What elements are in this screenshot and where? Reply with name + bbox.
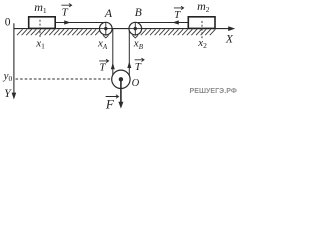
T label right string	[174, 6, 184, 21]
F arrow	[120, 79, 122, 103]
svg-text:T: T	[62, 7, 69, 19]
T label left vertical	[99, 59, 108, 73]
svg-text:T: T	[174, 9, 181, 21]
svg-text:T: T	[99, 61, 106, 73]
svg-text:РЕШУЕГЭ.РФ: РЕШУЕГЭ.РФ	[190, 88, 237, 95]
T label right vertical	[135, 58, 144, 73]
svg-text:O: O	[132, 78, 140, 89]
svg-text:B: B	[135, 7, 142, 19]
F label	[105, 95, 119, 112]
svg-text:T: T	[135, 61, 142, 73]
left vertical string from A down	[112, 29, 114, 80]
right vertical string from B down	[128, 29, 130, 80]
svg-text:A: A	[104, 6, 113, 20]
string m1 to pulley A	[56, 22, 107, 24]
up arrowhead right vertical string	[127, 62, 131, 69]
pulley A	[100, 22, 113, 38]
tension arrowhead on left string	[64, 20, 70, 24]
svg-text:X: X	[225, 33, 234, 45]
tension arrowhead on right string (points left)	[172, 20, 178, 24]
Y axis arrowhead	[12, 93, 17, 100]
block m1	[29, 17, 56, 29]
X axis ground line	[14, 28, 230, 30]
hatching left segment	[17, 29, 101, 35]
pulley B	[129, 22, 142, 38]
svg-text:F: F	[105, 96, 115, 111]
x2 dashed tick	[201, 21, 203, 39]
Y axis	[13, 23, 15, 94]
x1 dashed tick	[39, 20, 41, 39]
X axis arrowhead	[228, 26, 235, 31]
movable pulley O	[112, 70, 130, 88]
T label left string	[61, 4, 71, 19]
svg-text:0: 0	[5, 17, 11, 29]
y0 dashed line	[16, 78, 113, 80]
up arrowhead left vertical string	[111, 63, 115, 70]
hatching right segment	[141, 29, 216, 35]
string pulley B to m2	[135, 22, 188, 24]
block m2	[188, 17, 215, 29]
